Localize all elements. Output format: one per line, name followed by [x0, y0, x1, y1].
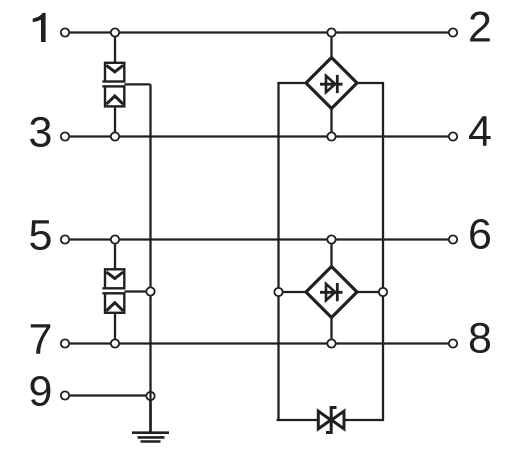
wire ground bus vertical: [149, 84, 151, 432]
ground: [132, 396, 169, 442]
node junction F2 tap/ground bus: [146, 287, 154, 295]
svg-text:7: 7: [29, 316, 53, 364]
wire bottom loop left segment: [277, 419, 319, 421]
node terminal 4: [449, 132, 457, 140]
svg-text:9: 9: [29, 368, 53, 416]
wire row 3-4: [65, 135, 453, 137]
svg-text:6: 6: [468, 211, 492, 259]
wire node5 to arrester F2 top: [114, 240, 116, 270]
wire row 7-8: [65, 342, 453, 344]
wire bridge B1 right vertex to right bus: [357, 82, 384, 84]
wire bridge B2 bottom to row 7: [330, 318, 332, 344]
node terminal 8: [449, 339, 457, 347]
node junction row3/arrester: [111, 132, 119, 140]
svg-text:3: 3: [29, 109, 53, 157]
svg-text:4: 4: [468, 108, 492, 156]
wire bridge B2 left vertex to left bus node: [279, 291, 308, 293]
wire left bus vertical: [277, 82, 279, 420]
node junction bridge B2 left: [274, 288, 282, 296]
bidirectional TVS diode: [318, 408, 344, 433]
surge arrester F2: [102, 269, 124, 313]
node junction row3/bridge: [327, 132, 335, 140]
node junction row1/arrester: [111, 28, 119, 36]
node junction row5/bridge: [327, 235, 335, 243]
diode bridge B1: [306, 58, 357, 109]
wire arrester F2 bottom to row 7: [114, 313, 116, 344]
node terminal 2: [449, 28, 457, 36]
node terminal 6: [449, 235, 457, 243]
node terminal 5: [61, 235, 69, 243]
wire F2 center tap to ground bus node: [125, 290, 151, 292]
wire row1 to bridge B1 top: [330, 33, 332, 59]
wire bridge B1 left vertex to left bus: [279, 82, 308, 84]
node terminal 9: [61, 391, 69, 399]
wire row 9 to ground bus: [65, 394, 151, 396]
wire bridge B2 right vertex to right bus node: [357, 291, 383, 293]
node terminal 1: [61, 28, 69, 36]
node terminal 7: [61, 339, 69, 347]
pin label 1: [33, 13, 46, 42]
wire node1 to arrester F1 top: [114, 33, 116, 64]
node terminal 3: [61, 132, 69, 140]
surge arrester F1: [102, 63, 124, 107]
wire bridge B1 bottom to row 3: [330, 108, 332, 137]
wire F1 center tap to ground bus: [125, 83, 151, 85]
wire row 5-6: [65, 238, 453, 240]
node junction row7/bridge: [327, 339, 335, 347]
node junction row7/arrester: [111, 339, 119, 347]
svg-text:8: 8: [468, 315, 492, 363]
node junction row1/bridge: [327, 28, 335, 36]
diode bridge B2: [306, 267, 357, 318]
wire bottom loop right segment: [344, 419, 384, 421]
node junction bridge B2 right: [379, 288, 387, 296]
wire row 1-2: [65, 31, 453, 33]
node junction row5/arrester: [111, 235, 119, 243]
wire arrester F1 bottom to row 3: [114, 106, 116, 137]
wire row5 to bridge B2 top: [330, 240, 332, 267]
wire right bus vertical: [382, 82, 384, 420]
svg-text:5: 5: [29, 212, 53, 260]
svg-text:2: 2: [468, 4, 492, 52]
node junction row9/ground bus: [146, 390, 154, 402]
